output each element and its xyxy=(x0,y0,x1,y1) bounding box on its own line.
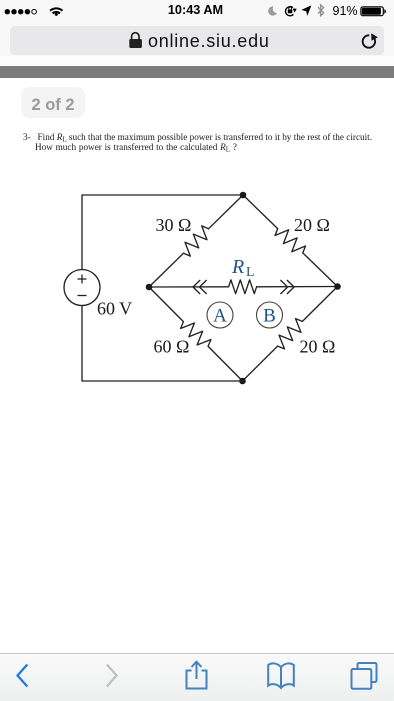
wire R1 to top node xyxy=(209,195,244,229)
svg-text:20 Ω: 20 Ω xyxy=(294,215,330,235)
wifi xyxy=(50,8,62,16)
refresh xyxy=(363,35,375,47)
wire R3 to bottom node xyxy=(208,346,242,381)
terminal circle B xyxy=(257,302,283,328)
wire RL to right node xyxy=(257,286,338,288)
svg-text:R: R xyxy=(231,256,244,278)
voltage source V1 60 V xyxy=(64,270,100,306)
svg-text:L: L xyxy=(246,265,255,280)
svg-text:A: A xyxy=(213,306,227,327)
svg-text:60 Ω: 60 Ω xyxy=(154,337,190,357)
resistor R1 30ohm zigzag xyxy=(184,226,209,256)
location arrow xyxy=(301,5,311,16)
svg-text:30 Ω: 30 Ω xyxy=(156,215,192,235)
wire top node to R2 xyxy=(243,195,278,229)
resistor R4 20ohm zigzag xyxy=(278,319,303,349)
wire top-left branch (left node to R1) xyxy=(149,253,184,287)
arrow right double chevron xyxy=(287,280,294,293)
wire top from source to top node xyxy=(82,195,243,270)
load resistor RL zigzag xyxy=(229,280,257,294)
page body xyxy=(0,56,394,66)
tabs icon xyxy=(352,663,377,689)
orientation lock xyxy=(285,7,296,16)
wire left node to RL xyxy=(149,286,229,288)
resistor R3 60ohm zigzag xyxy=(181,322,211,347)
node right junction xyxy=(334,283,341,290)
node top junction xyxy=(240,192,247,199)
wire R4 to right node xyxy=(302,287,337,322)
battery xyxy=(361,7,386,16)
share icon xyxy=(187,662,207,689)
svg-text:B: B xyxy=(263,306,276,327)
wire bottom from source to bottom node xyxy=(82,306,243,382)
terminal circle A xyxy=(207,302,233,328)
arrow left double chevron xyxy=(193,280,200,293)
lock in url field xyxy=(129,33,142,48)
bluetooth xyxy=(318,5,324,16)
forward chevron xyxy=(107,665,117,687)
wire left node to R3 xyxy=(149,287,183,322)
wire bottom node to R4 xyxy=(243,346,278,381)
signal dots xyxy=(5,9,37,14)
back chevron xyxy=(18,665,28,687)
source plus sign xyxy=(78,275,87,284)
bookmarks icon xyxy=(268,663,294,688)
resistor R2 20ohm zigzag xyxy=(275,229,306,253)
wire R2 to right node xyxy=(303,253,338,287)
moon xyxy=(268,6,277,15)
node bottom junction xyxy=(239,378,246,385)
source minus sign xyxy=(78,295,87,297)
svg-text:60 V: 60 V xyxy=(97,299,132,319)
svg-text:20 Ω: 20 Ω xyxy=(300,337,336,357)
node left junction xyxy=(146,284,153,291)
